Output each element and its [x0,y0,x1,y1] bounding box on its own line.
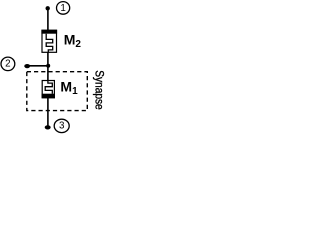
wire bottom segment [47,98,49,128]
node 1 circle [57,2,70,15]
svg-text:1: 1 [60,3,65,14]
memristor M2 polarity bar [41,30,57,34]
svg-text:M1: M1 [60,79,78,98]
memristor M1 meander [45,81,52,94]
wire middle segment [47,52,49,81]
memristor M1 body [42,81,54,98]
terminal dot node 1 [46,6,50,10]
synapse dashed box [27,72,88,111]
memristor M1 polarity bar [42,94,55,99]
svg-text:3: 3 [59,121,65,132]
memristor M2 body [42,30,57,52]
junction dot [46,64,50,68]
terminal dot node 3 [45,125,51,129]
node 3 circle [54,119,69,132]
svg-text:2: 2 [5,59,10,70]
wire from node 2 [27,65,48,67]
wire top segment [47,8,49,30]
svg-text:Synapse: Synapse [92,70,106,110]
node 2 circle [1,57,15,71]
node 2 terminal dot [24,64,30,68]
memristor M2 meander [46,34,53,53]
svg-text:M2: M2 [64,31,82,50]
